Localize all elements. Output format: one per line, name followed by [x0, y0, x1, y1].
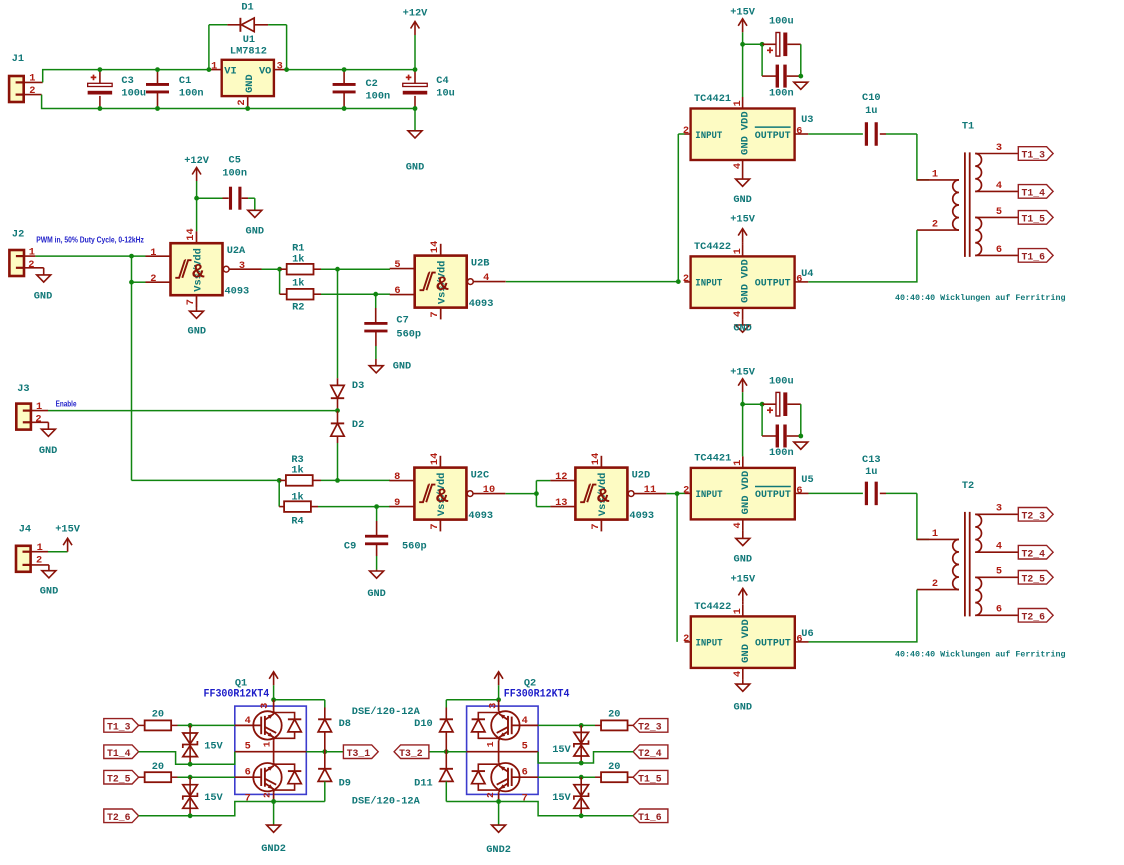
svg-text:3: 3 [277, 60, 283, 72]
svg-text:INPUT: INPUT [696, 489, 723, 501]
wire [287, 69, 415, 71]
ground [188, 307, 207, 338]
svg-text:U3: U3 [801, 114, 813, 126]
svg-text:100u: 100u [769, 16, 794, 28]
svg-text:INPUT: INPUT [695, 278, 722, 290]
svg-text:GND: GND [244, 74, 256, 93]
svg-text:C7: C7 [396, 315, 408, 327]
wire [139, 752, 235, 765]
svg-text:T2_6: T2_6 [1022, 612, 1046, 623]
svg-text:6: 6 [796, 485, 802, 497]
ground [246, 198, 265, 237]
hier label T2_3 [1018, 508, 1053, 523]
svg-text:+15V: +15V [730, 367, 756, 379]
connector J3 [16, 383, 48, 430]
svg-text:J2: J2 [12, 229, 24, 241]
svg-text:20: 20 [152, 709, 164, 721]
svg-text:D11: D11 [414, 778, 433, 790]
svg-text:T2_4: T2_4 [1022, 549, 1046, 560]
svg-text:+15V: +15V [730, 7, 756, 19]
svg-text:U2D: U2D [632, 470, 651, 482]
ground [39, 422, 58, 457]
hier label T2_4 [1018, 545, 1053, 560]
svg-text:OUTPUT: OUTPUT [755, 638, 791, 650]
svg-text:C5: C5 [229, 155, 241, 167]
svg-text:T3_2: T3_2 [399, 749, 423, 760]
svg-text:U1: U1 [243, 34, 255, 46]
capacitor C3 [88, 67, 146, 111]
power +15V [730, 214, 756, 245]
power +12V [403, 7, 429, 69]
wire [129, 280, 145, 285]
svg-text:VDD: VDD [740, 619, 752, 638]
svg-text:T1_4: T1_4 [107, 749, 131, 760]
svg-text:&: & [436, 486, 449, 509]
svg-text:OUTPUT: OUTPUT [755, 278, 791, 290]
svg-text:GND: GND [367, 588, 386, 600]
driver U6 TC4422 [683, 601, 814, 680]
svg-text:4: 4 [996, 180, 1002, 192]
svg-text:5: 5 [996, 566, 1002, 578]
svg-text:C1: C1 [179, 75, 191, 87]
svg-text:PWM in, 50% Duty Cycle, 0-12kH: PWM in, 50% Duty Cycle, 0-12kHz [36, 235, 144, 244]
svg-text:C13: C13 [862, 454, 881, 466]
capacitor C9 [344, 507, 427, 570]
svg-text:3: 3 [996, 142, 1002, 154]
svg-text:20: 20 [152, 761, 164, 773]
resistor R4 [279, 492, 318, 528]
svg-text:D10: D10 [414, 718, 433, 730]
svg-text:GND2: GND2 [261, 843, 286, 855]
capacitor C1 [146, 67, 204, 111]
svg-text:100n: 100n [769, 87, 794, 99]
svg-text:GND: GND [246, 225, 265, 237]
svg-text:U6: U6 [801, 628, 813, 640]
svg-text:560p: 560p [402, 541, 427, 553]
svg-text:100u: 100u [769, 375, 794, 387]
capacitor C13 [809, 454, 917, 505]
svg-text:6: 6 [796, 633, 802, 645]
svg-text:7: 7 [522, 792, 528, 804]
driver U4 TC4422 [683, 241, 814, 320]
wire [506, 279, 681, 284]
wire [880, 590, 917, 642]
svg-text:5: 5 [996, 206, 1002, 218]
hier label T1_4 [1018, 185, 1053, 200]
svg-text:100n: 100n [179, 88, 204, 100]
svg-text:7: 7 [429, 523, 441, 529]
wire T3_2 [429, 749, 499, 754]
svg-text:6: 6 [996, 604, 1002, 616]
connector J1 [9, 53, 43, 102]
svg-text:GND: GND [34, 291, 53, 303]
wire [535, 481, 537, 507]
svg-text:7: 7 [429, 311, 441, 317]
transistor Q2 module [467, 700, 538, 805]
wire [178, 775, 235, 780]
regulator U1 LM7812 [207, 34, 290, 111]
wire [262, 267, 283, 272]
svg-text:100n: 100n [222, 168, 247, 180]
wire [279, 269, 281, 294]
svg-text:GND: GND [740, 644, 752, 663]
hier label T2_3 [633, 719, 668, 734]
capacitors 100u/100n [740, 375, 808, 459]
wire [536, 506, 550, 508]
svg-text:2: 2 [683, 633, 689, 645]
svg-text:VO: VO [259, 66, 271, 78]
wire [321, 267, 340, 272]
svg-text:7: 7 [185, 299, 197, 305]
wire [335, 443, 340, 483]
svg-text:6: 6 [996, 244, 1002, 256]
resistor 20 [595, 761, 633, 782]
wire [536, 480, 550, 482]
wire [278, 480, 280, 506]
resistor R2 [280, 277, 321, 313]
svg-text:C4: C4 [436, 75, 448, 87]
wire [318, 504, 390, 509]
hier label T1_5 [633, 770, 668, 785]
note windings [895, 293, 1066, 303]
svg-text:GND: GND [740, 284, 752, 303]
svg-text:DSE/120-12A: DSE/120-12A [352, 795, 420, 807]
resistor 20 [139, 761, 178, 782]
label Enable [56, 399, 77, 408]
svg-text:1k: 1k [292, 253, 304, 265]
diode D2 [331, 411, 364, 443]
svg-text:D8: D8 [339, 718, 351, 730]
svg-text:+15V: +15V [730, 214, 756, 226]
wire [131, 256, 133, 480]
svg-text:OUTPUT: OUTPUT [755, 130, 791, 142]
power +15V [730, 573, 756, 604]
ground [733, 172, 752, 206]
transistor Q1 labels [204, 678, 270, 701]
svg-text:7: 7 [590, 523, 602, 529]
wire [196, 198, 198, 231]
svg-text:5: 5 [245, 741, 251, 753]
svg-text:3: 3 [487, 703, 499, 709]
ground [367, 570, 386, 600]
svg-text:2: 2 [683, 125, 689, 137]
svg-text:U5: U5 [801, 474, 813, 486]
hier label T2_4 [633, 745, 668, 760]
svg-text:GND: GND [740, 495, 752, 514]
capacitor C4 [403, 67, 455, 111]
svg-text:+12V: +12V [184, 155, 210, 167]
svg-text:4: 4 [483, 272, 489, 284]
note windings [895, 650, 1066, 660]
svg-text:6: 6 [245, 767, 251, 779]
svg-text:GND2: GND2 [486, 844, 511, 856]
svg-text:2: 2 [683, 485, 689, 497]
diode D8 [318, 708, 351, 752]
svg-text:U2A: U2A [227, 245, 246, 257]
power +15V [730, 7, 756, 45]
TVS 15V [552, 725, 588, 765]
svg-text:14: 14 [429, 453, 441, 465]
TVS 15V [183, 725, 224, 766]
hier label T2_6 [1018, 609, 1053, 624]
hier label T2_5 [1018, 571, 1053, 586]
capacitor C2 [333, 67, 391, 111]
wire [35, 254, 145, 259]
svg-text:LM7812: LM7812 [230, 45, 267, 57]
svg-text:R4: R4 [291, 516, 303, 528]
svg-text:1k: 1k [292, 277, 304, 289]
transformer T2 [917, 480, 1018, 617]
svg-text:FF300R12KT4: FF300R12KT4 [204, 689, 270, 701]
hier label T1_3 [1018, 147, 1053, 162]
wire [538, 752, 633, 763]
gate U2D [550, 453, 666, 532]
svg-text:GND: GND [733, 194, 752, 206]
capacitors 100u/100n [740, 16, 808, 100]
svg-text:1u: 1u [865, 466, 877, 478]
wire [742, 404, 744, 456]
svg-text:8: 8 [394, 471, 400, 483]
svg-text:100n: 100n [366, 91, 391, 103]
svg-text:1: 1 [211, 60, 217, 72]
wire [337, 269, 339, 378]
svg-text:1k: 1k [291, 492, 303, 504]
hier label T2_6 [104, 809, 139, 824]
wire [132, 478, 282, 483]
svg-text:VI: VI [224, 66, 236, 78]
svg-text:3: 3 [996, 503, 1002, 515]
wire [338, 268, 391, 270]
label DSE [352, 795, 420, 807]
diode D9 [318, 752, 351, 802]
svg-text:4093: 4093 [469, 298, 494, 310]
power arrow [494, 672, 503, 700]
svg-text:1: 1 [932, 168, 938, 180]
svg-text:1: 1 [261, 741, 272, 747]
wire [496, 799, 633, 816]
driver U3 TC4421 [683, 93, 814, 172]
diode D11 [414, 752, 453, 802]
wire [178, 723, 235, 728]
svg-text:DSE/120-12A: DSE/120-12A [352, 706, 420, 718]
wire [321, 479, 390, 481]
svg-text:D3: D3 [352, 380, 364, 392]
svg-text:2: 2 [236, 99, 248, 105]
hier label T1_4 [104, 745, 139, 760]
svg-text:T1_3: T1_3 [107, 723, 131, 734]
resistor R3 [279, 454, 321, 486]
svg-text:T1_6: T1_6 [1022, 253, 1046, 264]
connector J2 [9, 229, 43, 277]
hier label T1_5 [1018, 211, 1053, 226]
svg-text:6: 6 [522, 767, 528, 779]
hier label T1_3 [104, 719, 139, 734]
resistor 20 [595, 709, 633, 731]
svg-text:2: 2 [932, 219, 938, 231]
svg-text:T1: T1 [962, 120, 974, 132]
svg-text:VDD: VDD [740, 111, 752, 130]
svg-text:40:40:40 Wicklungen auf Ferrit: 40:40:40 Wicklungen auf Ferritring [895, 650, 1066, 660]
svg-text:2: 2 [932, 578, 938, 590]
wire [809, 641, 881, 643]
wire [335, 408, 340, 413]
hier label T1_6 [1018, 249, 1053, 264]
svg-text:1u: 1u [865, 105, 877, 117]
svg-text:OUTPUT: OUTPUT [755, 489, 791, 501]
svg-text:T2: T2 [962, 480, 974, 492]
wire [678, 134, 684, 282]
svg-text:D9: D9 [339, 778, 351, 790]
svg-text:GND: GND [188, 326, 207, 338]
svg-text:4: 4 [996, 541, 1002, 553]
svg-text:GND: GND [40, 586, 59, 598]
svg-text:T2_6: T2_6 [107, 813, 131, 824]
diode D10 [414, 708, 453, 752]
svg-text:15V: 15V [204, 792, 223, 804]
ground [406, 109, 425, 174]
svg-text:T2_3: T2_3 [638, 723, 662, 734]
svg-text:11: 11 [644, 484, 656, 496]
svg-text:C9: C9 [344, 541, 356, 553]
wire [42, 95, 415, 109]
TVS 15V [552, 777, 588, 818]
power arrow [269, 672, 278, 700]
svg-text:&: & [192, 261, 205, 284]
wire [538, 723, 595, 728]
power +15V [48, 524, 81, 552]
wire [917, 493, 929, 539]
svg-text:4: 4 [522, 715, 528, 727]
svg-text:T2_5: T2_5 [1022, 574, 1046, 585]
ground GND2 [486, 802, 511, 857]
svg-text:J4: J4 [19, 524, 31, 536]
svg-text:2: 2 [35, 413, 41, 425]
wire [538, 775, 595, 780]
svg-text:+15V: +15V [730, 573, 756, 585]
ground [34, 268, 53, 303]
svg-text:TC4422: TC4422 [694, 601, 731, 613]
wire [808, 281, 880, 283]
wire [880, 230, 917, 282]
svg-text:R2: R2 [292, 301, 304, 313]
svg-text:U4: U4 [801, 268, 813, 280]
svg-text:GND: GND [733, 323, 752, 335]
svg-text:D2: D2 [352, 419, 364, 431]
svg-text:10u: 10u [436, 88, 455, 100]
svg-text:GND: GND [39, 445, 58, 457]
svg-text:15V: 15V [552, 792, 571, 804]
power +12V [184, 155, 210, 198]
wire [446, 697, 501, 707]
svg-text:6: 6 [796, 126, 802, 138]
svg-text:D1: D1 [241, 2, 253, 14]
svg-text:TC4422: TC4422 [694, 241, 731, 253]
wire [446, 801, 498, 803]
svg-text:560p: 560p [396, 329, 421, 341]
svg-text:5: 5 [394, 259, 400, 271]
ground GND2 [261, 802, 286, 856]
resistor R1 [280, 243, 321, 275]
svg-text:2: 2 [683, 273, 689, 285]
transistor Q1 module [235, 700, 306, 805]
svg-text:15V: 15V [204, 741, 223, 753]
ground [734, 679, 753, 713]
ground [734, 531, 753, 565]
wire [677, 493, 685, 642]
svg-text:20: 20 [608, 761, 620, 773]
hier label T3_2 [394, 745, 429, 760]
connector J4 [16, 524, 49, 572]
svg-text:2: 2 [485, 792, 496, 798]
gate U2C [389, 453, 505, 532]
svg-text:15V: 15V [552, 744, 571, 756]
svg-text:14: 14 [590, 453, 602, 465]
hier label T1_6 [633, 809, 668, 824]
svg-text:4: 4 [245, 715, 251, 727]
svg-text:&: & [597, 486, 610, 509]
svg-text:40:40:40 Wicklungen auf Ferrit: 40:40:40 Wicklungen auf Ferritring [895, 293, 1066, 303]
svg-text:Enable: Enable [56, 399, 77, 408]
svg-text:INPUT: INPUT [695, 130, 722, 142]
svg-text:4093: 4093 [225, 286, 250, 298]
svg-text:T1_4: T1_4 [1022, 189, 1046, 200]
wire [274, 801, 325, 803]
svg-text:6: 6 [796, 273, 802, 285]
wire [321, 292, 390, 297]
svg-text:INPUT: INPUT [696, 638, 723, 650]
svg-text:&: & [436, 274, 449, 297]
svg-text:J3: J3 [17, 383, 29, 395]
capacitor C5 [194, 155, 255, 210]
svg-text:+12V: +12V [403, 7, 429, 19]
svg-text:FF300R12KT4: FF300R12KT4 [504, 689, 570, 701]
svg-text:C2: C2 [366, 78, 378, 90]
wire [506, 491, 539, 496]
svg-text:VDD: VDD [740, 259, 752, 278]
svg-text:4093: 4093 [468, 510, 493, 522]
capacitor C10 [808, 92, 917, 146]
svg-text:14: 14 [429, 241, 441, 253]
wire [742, 44, 744, 97]
svg-text:100n: 100n [769, 447, 794, 459]
gate U2B [390, 241, 506, 320]
wire Enable [48, 410, 338, 412]
diode D3 [331, 378, 364, 410]
hier label T2_5 [104, 770, 139, 785]
svg-text:5: 5 [522, 741, 528, 753]
svg-text:1k: 1k [291, 464, 303, 476]
svg-text:GND: GND [740, 136, 752, 155]
svg-text:7: 7 [245, 792, 251, 804]
capacitor C7 [364, 294, 421, 359]
svg-text:6: 6 [394, 285, 400, 297]
hier label T3_1 [343, 745, 378, 760]
wire [917, 134, 929, 180]
svg-text:VDD: VDD [740, 471, 752, 490]
svg-text:10: 10 [483, 484, 495, 496]
svg-text:T1_5: T1_5 [1022, 215, 1046, 226]
svg-text:4093: 4093 [629, 510, 654, 522]
wire [43, 70, 209, 83]
wire [271, 697, 325, 707]
svg-text:T1_5: T1_5 [638, 774, 662, 785]
label DSE [352, 706, 420, 718]
svg-text:T3_1: T3_1 [347, 749, 371, 760]
TVS 15V [183, 777, 224, 818]
svg-text:13: 13 [555, 497, 567, 509]
svg-text:100u: 100u [121, 88, 146, 100]
svg-text:GND: GND [393, 360, 412, 372]
